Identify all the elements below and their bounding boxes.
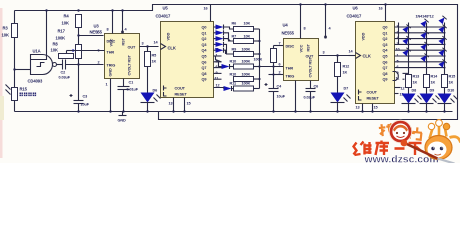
svg-text:R8: R8 bbox=[53, 42, 59, 47]
svg-text:16: 16 bbox=[379, 7, 383, 11]
svg-text:OUT: OUT bbox=[306, 55, 314, 59]
svg-text:NE555: NE555 bbox=[282, 31, 295, 36]
svg-text:12: 12 bbox=[401, 87, 405, 91]
svg-text:Q6: Q6 bbox=[202, 60, 207, 64]
svg-text:10K: 10K bbox=[244, 35, 251, 39]
svg-text:R15: R15 bbox=[449, 75, 456, 79]
svg-text:10K: 10K bbox=[244, 22, 251, 26]
svg-text:U5: U5 bbox=[163, 6, 169, 11]
svg-text:8: 8 bbox=[304, 27, 306, 31]
svg-text:GND: GND bbox=[118, 119, 126, 123]
svg-text:COUT: COUT bbox=[367, 91, 378, 95]
svg-text:THR: THR bbox=[107, 51, 115, 55]
svg-text:R12: R12 bbox=[343, 65, 350, 69]
svg-text:CVOLT RST: CVOLT RST bbox=[128, 54, 132, 75]
svg-text:D6: D6 bbox=[153, 89, 158, 93]
svg-text:1: 1 bbox=[106, 83, 108, 87]
svg-text:RST: RST bbox=[122, 37, 126, 45]
svg-text:Q8: Q8 bbox=[202, 72, 207, 76]
svg-text:7: 7 bbox=[279, 42, 281, 46]
svg-text:R11: R11 bbox=[230, 82, 236, 86]
svg-text:Q8: Q8 bbox=[383, 72, 388, 76]
svg-text:Q2: Q2 bbox=[383, 37, 388, 41]
svg-text:Q2: Q2 bbox=[202, 37, 207, 41]
svg-text:DISC: DISC bbox=[286, 45, 295, 49]
svg-text:CD4093: CD4093 bbox=[28, 79, 44, 84]
svg-text:Q7: Q7 bbox=[202, 66, 207, 70]
svg-text:Q5: Q5 bbox=[383, 55, 388, 59]
svg-text:R3: R3 bbox=[3, 26, 9, 31]
svg-text:D8: D8 bbox=[412, 89, 417, 93]
svg-text:15: 15 bbox=[374, 106, 378, 110]
svg-text:U1A: U1A bbox=[33, 49, 41, 54]
svg-text:GND: GND bbox=[109, 68, 113, 76]
svg-text:COUT: COUT bbox=[175, 87, 186, 91]
svg-text:10uF: 10uF bbox=[277, 95, 286, 99]
svg-text:Q7: Q7 bbox=[383, 66, 388, 70]
svg-text:Q1: Q1 bbox=[202, 31, 207, 35]
svg-text:1K: 1K bbox=[431, 81, 436, 85]
svg-text:THR: THR bbox=[286, 67, 294, 71]
svg-text:D7: D7 bbox=[344, 87, 349, 91]
svg-text:Q0: Q0 bbox=[202, 26, 207, 30]
svg-text:1K: 1K bbox=[152, 60, 157, 64]
svg-text:Q5: Q5 bbox=[202, 55, 207, 59]
svg-text:R10: R10 bbox=[230, 73, 237, 77]
svg-text:RST: RST bbox=[307, 43, 311, 51]
svg-text:0.01uF: 0.01uF bbox=[127, 88, 139, 92]
svg-text:100K: 100K bbox=[242, 73, 251, 77]
svg-text:Q0: Q0 bbox=[383, 26, 388, 30]
svg-text:100K: 100K bbox=[56, 36, 66, 41]
svg-text:TRIG: TRIG bbox=[107, 64, 116, 68]
svg-text:CLK: CLK bbox=[363, 54, 371, 59]
svg-text:10K: 10K bbox=[2, 33, 9, 38]
svg-text:R6: R6 bbox=[232, 22, 237, 26]
svg-text:13: 13 bbox=[169, 102, 173, 106]
svg-text:R7: R7 bbox=[232, 35, 237, 39]
svg-text:VDD: VDD bbox=[167, 32, 171, 40]
svg-text:R14: R14 bbox=[431, 75, 439, 79]
svg-text:R4: R4 bbox=[64, 14, 70, 19]
svg-text:CVOLT RST: CVOLT RST bbox=[309, 56, 313, 77]
svg-text:16: 16 bbox=[204, 7, 208, 11]
svg-text:Q9: Q9 bbox=[202, 78, 207, 82]
svg-text:0.02uF: 0.02uF bbox=[304, 96, 316, 100]
svg-text:15: 15 bbox=[187, 102, 191, 106]
svg-text:10K: 10K bbox=[51, 48, 58, 53]
svg-text:6: 6 bbox=[279, 63, 281, 67]
svg-text:VCC: VCC bbox=[110, 38, 114, 46]
svg-text:1K: 1K bbox=[343, 71, 348, 75]
svg-text:R5: R5 bbox=[152, 54, 157, 58]
svg-text:CD4017: CD4017 bbox=[347, 14, 363, 19]
svg-text:U6: U6 bbox=[353, 6, 359, 11]
svg-text:RESET: RESET bbox=[175, 93, 188, 97]
svg-text:2: 2 bbox=[98, 61, 100, 65]
svg-text:Q1: Q1 bbox=[383, 31, 388, 35]
svg-text:VCC: VCC bbox=[300, 44, 304, 52]
svg-text:C3: C3 bbox=[83, 95, 88, 99]
svg-text:R9: R9 bbox=[232, 48, 237, 52]
svg-text:3: 3 bbox=[323, 51, 325, 55]
svg-text:Q3: Q3 bbox=[202, 43, 207, 47]
svg-text:8: 8 bbox=[107, 28, 109, 32]
svg-text:12: 12 bbox=[216, 84, 220, 88]
svg-text:R10: R10 bbox=[230, 60, 237, 64]
svg-text:R15: R15 bbox=[20, 87, 28, 92]
svg-text:Q3: Q3 bbox=[383, 43, 388, 47]
svg-text:Q6: Q6 bbox=[383, 60, 388, 64]
svg-text:C6: C6 bbox=[314, 85, 319, 89]
svg-text:Q9: Q9 bbox=[383, 78, 388, 82]
svg-text:U4: U4 bbox=[283, 23, 289, 28]
svg-text:1N4148*12: 1N4148*12 bbox=[416, 15, 434, 19]
svg-text:C1: C1 bbox=[129, 81, 134, 85]
svg-text:100K: 100K bbox=[242, 60, 251, 64]
svg-text:13: 13 bbox=[356, 106, 360, 110]
svg-text:1K: 1K bbox=[413, 81, 418, 85]
svg-text:R13: R13 bbox=[413, 75, 420, 79]
svg-text:TRIG: TRIG bbox=[286, 75, 295, 79]
svg-text:CLK: CLK bbox=[168, 46, 176, 51]
svg-text:VDD: VDD bbox=[362, 32, 366, 40]
svg-text:D9: D9 bbox=[430, 89, 435, 93]
svg-text:D10: D10 bbox=[448, 89, 455, 93]
svg-text:1K: 1K bbox=[449, 81, 454, 85]
svg-text:NE555: NE555 bbox=[90, 30, 103, 35]
svg-text:OUT: OUT bbox=[128, 46, 136, 50]
svg-text:100K: 100K bbox=[242, 48, 251, 52]
svg-text:10uF: 10uF bbox=[81, 103, 90, 107]
svg-text:2: 2 bbox=[279, 71, 281, 75]
svg-text:100K: 100K bbox=[254, 58, 263, 62]
svg-text:100K: 100K bbox=[242, 82, 251, 86]
svg-text:CD4017: CD4017 bbox=[156, 14, 172, 19]
svg-text:3: 3 bbox=[142, 42, 144, 46]
svg-text:RESET: RESET bbox=[367, 97, 380, 101]
svg-text:R17: R17 bbox=[58, 29, 66, 34]
svg-text:0.03uF: 0.03uF bbox=[59, 76, 71, 80]
svg-text:10K: 10K bbox=[62, 21, 69, 26]
svg-text:C2: C2 bbox=[61, 71, 66, 75]
svg-text:www.dzsc.com: www.dzsc.com bbox=[364, 155, 439, 164]
svg-text:U3: U3 bbox=[94, 24, 100, 29]
